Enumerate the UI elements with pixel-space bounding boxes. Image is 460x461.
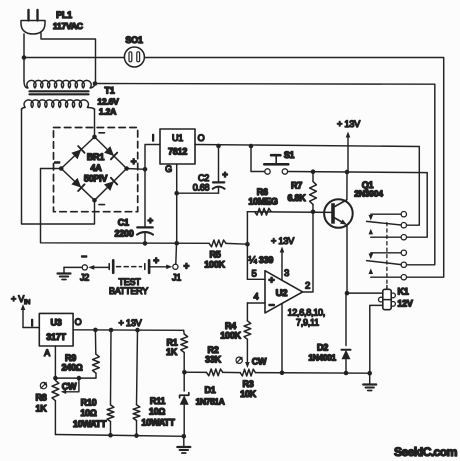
- wire T1 secondary left down and right to bridge bottom vertex: [22, 109, 95, 224]
- label D1 1N751A: [196, 385, 225, 407]
- svg-text:317T: 317T: [46, 332, 66, 342]
- comparator U2 1/4 339 triangle: [265, 271, 303, 313]
- bridge diode bottom-right: [104, 181, 114, 191]
- junction R11 top: [135, 328, 140, 333]
- junction R7 top: [311, 169, 316, 174]
- bridge rectifier BR1 dashed box: [54, 128, 138, 212]
- label D2 1N4001: [308, 343, 336, 363]
- Q1 collector wire: [346, 172, 348, 200]
- ground at J2: [58, 272, 71, 274]
- svg-text:¼ 339: ¼ 339: [249, 254, 274, 266]
- label R7 6.8K: [287, 181, 306, 204]
- svg-text:2: 2: [305, 281, 310, 292]
- svg-text:R3: R3: [242, 379, 253, 389]
- label C1 2200: [114, 218, 133, 239]
- wire +12V line down to S1: [251, 146, 265, 172]
- bridge vertex junctions: [92, 135, 97, 140]
- svg-text:117VAC: 117VAC: [53, 21, 83, 31]
- svg-text:O: O: [75, 317, 82, 327]
- AC line 2 wire from T1 primary to right edge down to relay contact: [95, 84, 435, 265]
- label J1 and plus: [172, 262, 190, 283]
- wire R2 to R3: [223, 371, 240, 373]
- base line to Q1: [247, 211, 331, 214]
- U3 adjust lead: [54, 346, 56, 378]
- svg-text:R2: R2: [207, 345, 218, 355]
- junction D2 at rail: [344, 371, 349, 376]
- svg-text:–: –: [269, 299, 275, 311]
- resistor R9 240ohm: [93, 330, 100, 373]
- relay K1 coil: [347, 286, 395, 310]
- svg-text:I: I: [152, 133, 154, 143]
- pushbutton S1: [264, 155, 288, 174]
- jack J2 with ground: [64, 267, 82, 273]
- svg-text:+: +: [148, 216, 154, 227]
- svg-text:+ 13V: + 13V: [271, 236, 295, 246]
- svg-text:R9: R9: [65, 353, 76, 363]
- svg-text:R5: R5: [209, 250, 220, 260]
- svg-text:J1: J1: [172, 273, 181, 283]
- label Q1 2N3904: [354, 180, 383, 199]
- wire plug left prong down: [23, 34, 25, 57]
- battery lead to J1 with arrow: [150, 266, 166, 268]
- svg-text:1K: 1K: [35, 404, 47, 414]
- wire adjust node to R9 bottom: [55, 373, 96, 378]
- R8 wiper arm: [66, 378, 79, 392]
- svg-text:D2: D2: [317, 343, 328, 353]
- svg-text:C2: C2: [198, 173, 209, 183]
- svg-text:33K: 33K: [205, 355, 222, 365]
- wire R5 to comparator input node: [226, 242, 247, 245]
- label R6 10MEG: [248, 187, 278, 207]
- +VIN input arrow: [11, 294, 39, 328]
- plug PL1: [21, 10, 45, 34]
- +13V arrow at Q1 collector: [337, 119, 361, 172]
- relay contact set 1 terminals: [401, 212, 406, 240]
- label T1 12.6V 1.2A: [97, 86, 119, 117]
- junction R5 / R6 / pin5 node: [245, 242, 250, 247]
- socket SO1: [124, 35, 144, 67]
- Q1 emitter wire: [346, 225, 348, 293]
- label C2 0.68: [193, 173, 210, 193]
- wire R6 left down to pin5 node: [246, 212, 248, 280]
- wire J1 up to common rail: [175, 243, 178, 264]
- svg-text:K1: K1: [397, 287, 408, 297]
- resistor R11 10ohm 10WATT: [133, 330, 140, 435]
- junction U1 G / C2 return: [174, 191, 179, 196]
- junction R10 bottom: [108, 433, 113, 438]
- svg-text:BATTERY: BATTERY: [109, 286, 148, 296]
- svg-text:1N751A: 1N751A: [196, 397, 225, 407]
- svg-text:1.2A: 1.2A: [99, 107, 116, 117]
- junction R11 bottom: [134, 433, 139, 438]
- svg-text:2200: 2200: [114, 229, 133, 239]
- bridge BR1 diamond: [61, 137, 126, 200]
- U2 pin 5 input wire: [247, 278, 265, 280]
- label R2 33K: [205, 345, 222, 365]
- junction D1 / R2 node: [182, 370, 187, 375]
- resistor R5 100K: [209, 240, 226, 247]
- svg-text:R7: R7: [291, 181, 302, 191]
- svg-text:BR1: BR1: [87, 152, 104, 162]
- label R10 10ohm 10WATT: [73, 398, 107, 430]
- svg-text:4A: 4A: [90, 163, 102, 173]
- wire S1 to R7 / +13V / relay contact: [288, 172, 428, 238]
- wire up to U1 input pin: [145, 145, 160, 170]
- junction C1 at common rail: [143, 241, 148, 246]
- junction R7 bottom / base / U2 output: [311, 210, 316, 215]
- transformer T1 core: [30, 90, 89, 92]
- U2 pin 4 input wire: [247, 302, 265, 304]
- svg-text:1N4001: 1N4001: [308, 353, 336, 363]
- resistor R7 6.8K: [310, 172, 317, 212]
- svg-text:O: O: [198, 133, 205, 143]
- AC line 1 wire to SO1: [24, 57, 125, 59]
- svg-text:–: –: [54, 157, 60, 168]
- svg-text:12V: 12V: [397, 299, 413, 309]
- svg-text:50PIV: 50PIV: [84, 174, 108, 184]
- svg-text:–: –: [81, 251, 87, 262]
- bridge diode bottom-left: [71, 178, 81, 188]
- svg-text:12,6,8,10,: 12,6,8,10,: [288, 308, 326, 318]
- potentiometer R8 1K: [52, 378, 79, 434]
- U2 pin 3 +13V arrow: [271, 236, 295, 280]
- junction bridge + node: [143, 167, 148, 172]
- svg-text:R6: R6: [257, 187, 268, 197]
- regulator U3 317T: [39, 313, 73, 346]
- junction AC line 1: [22, 55, 27, 60]
- svg-text:+: +: [269, 275, 275, 287]
- relay actuation dashed link: [386, 223, 388, 286]
- junction Q1 collector / +13V arrow: [345, 170, 350, 175]
- svg-text:7,9,11: 7,9,11: [296, 318, 319, 328]
- svg-text:SO1: SO1: [125, 35, 143, 45]
- svg-text:CW: CW: [252, 357, 267, 367]
- svg-text:4: 4: [253, 292, 258, 303]
- svg-text:2N3904: 2N3904: [354, 189, 383, 199]
- svg-text:7812: 7812: [168, 147, 187, 157]
- svg-text:10WATT: 10WATT: [73, 419, 107, 429]
- junction R8 wiper tap: [77, 376, 82, 381]
- label R1 1K: [166, 338, 178, 358]
- svg-text:+ 13V: + 13V: [337, 119, 361, 129]
- wire plug right prong to T1 primary right: [41, 33, 96, 84]
- label BR1 4A 50PIV: [84, 152, 108, 184]
- battery lead to J2 with arrow: [94, 266, 108, 268]
- svg-text:R8: R8: [35, 393, 46, 403]
- label R4 100K: [220, 321, 241, 341]
- junction R10 top: [109, 328, 114, 333]
- test battery symbol: [88, 256, 172, 273]
- relay contact set 2 terminals: [401, 250, 406, 280]
- svg-text:0.68: 0.68: [193, 183, 210, 193]
- bridge diode top-right: [104, 146, 114, 156]
- bridge diode top-left: [71, 149, 81, 159]
- svg-text:D1: D1: [204, 385, 215, 395]
- svg-text:+: +: [153, 256, 159, 267]
- resistor R10 10ohm 10WATT: [107, 330, 114, 435]
- capacitor C2: [177, 146, 229, 193]
- U1 pin labels I O G: [152, 133, 205, 174]
- bottom rail D1 to ground: [184, 371, 206, 373]
- wire bridge + output to U1 input: [127, 168, 145, 171]
- svg-text:R11: R11: [150, 396, 166, 406]
- svg-text:6.8K: 6.8K: [287, 193, 306, 203]
- U2 ground pin wire: [281, 304, 283, 373]
- transistor Q1 2N3904: [324, 172, 353, 293]
- relay contact set 1 arm and arrows: [367, 214, 402, 237]
- bridge polarity marks: [54, 133, 136, 205]
- svg-text:R10: R10: [81, 398, 97, 408]
- svg-text:+: +: [222, 170, 228, 181]
- svg-text:+: +: [131, 157, 137, 168]
- resistor R6 10MEG: [255, 208, 272, 215]
- svg-text:A: A: [44, 348, 50, 358]
- U3 pin labels O A: [44, 317, 82, 358]
- junction T1 primary right / AC line 2: [93, 81, 98, 86]
- label K1 12V: [397, 287, 413, 309]
- common rail from bridge negative: [41, 169, 210, 244]
- capacitor C1 electrolytic: [137, 169, 154, 243]
- R8 CW mark and adjust symbol: [40, 382, 77, 392]
- resistor R2 33K: [207, 369, 223, 376]
- junction C2 at +12V line: [216, 144, 221, 149]
- svg-text:PL1: PL1: [56, 10, 72, 20]
- zener diode D1 1N751A: [180, 372, 189, 436]
- junction D1 at bottom rail: [182, 434, 187, 439]
- junction Q1 emitter / K1 / D2: [345, 291, 350, 296]
- svg-text:5: 5: [251, 269, 256, 280]
- svg-text:S1: S1: [284, 150, 295, 160]
- regulator U1 7812 box: [160, 129, 195, 164]
- junction R9 top: [93, 328, 98, 333]
- svg-text:U3: U3: [50, 318, 61, 328]
- +13V output line of U3: [73, 329, 184, 332]
- svg-text:J2: J2: [80, 273, 89, 283]
- label R3 10K: [240, 379, 257, 399]
- U1 ground lead: [176, 164, 178, 243]
- svg-text:3: 3: [284, 268, 289, 279]
- junction U1 G at common rail: [174, 241, 179, 246]
- svg-text:CW: CW: [62, 382, 77, 392]
- potentiometer R3 10K: [240, 369, 255, 376]
- svg-text:+ 13V: + 13V: [118, 318, 142, 328]
- svg-text:10WATT: 10WATT: [141, 418, 175, 428]
- K1 return wire to ground: [370, 305, 383, 373]
- svg-text:10Ω: 10Ω: [80, 408, 97, 418]
- svg-text:R1: R1: [166, 338, 177, 348]
- svg-text:240Ω: 240Ω: [62, 363, 83, 373]
- junction adjust node: [53, 376, 58, 381]
- label J2 and minus: [80, 251, 89, 283]
- svg-text:U2: U2: [276, 288, 288, 299]
- svg-text:100K: 100K: [220, 331, 241, 341]
- svg-text:10Ω: 10Ω: [149, 407, 166, 417]
- R3 CW mark and adjust symbol: [236, 357, 267, 367]
- AC line 1 wire from SO1 to right edge then down to relay contact: [144, 58, 443, 278]
- +12V output line from U1 to relay contact: [195, 145, 419, 226]
- svg-text:1K: 1K: [166, 347, 178, 357]
- diode D2 1N4001: [341, 293, 350, 373]
- svg-text:I: I: [31, 318, 33, 328]
- svg-text:+: +: [184, 262, 190, 273]
- svg-text:C1: C1: [118, 218, 129, 228]
- wire T1 secondary right down to bridge top vertex: [94, 109, 96, 137]
- label R5 100K: [204, 250, 225, 270]
- svg-text:G: G: [165, 164, 172, 174]
- svg-text:10K: 10K: [240, 389, 257, 399]
- ground at D1: [177, 436, 190, 453]
- svg-text:R4: R4: [225, 321, 236, 331]
- ground at K1: [363, 373, 376, 390]
- label R9 240ohm: [62, 353, 83, 373]
- junction K1 ground: [367, 371, 372, 376]
- resistor R4 100K: [244, 303, 251, 368]
- transformer T1 primary winding: [24, 80, 95, 88]
- label TEST BATTERY: [109, 277, 148, 296]
- U2 output pin 2 wire up to base node: [303, 212, 313, 292]
- label R11 10ohm 10WATT: [141, 396, 175, 428]
- transformer T1 secondary winding: [22, 100, 95, 110]
- svg-text:12.6V: 12.6V: [97, 97, 119, 107]
- label PL1 117VAC: [53, 10, 83, 31]
- U2 power pins label 12,6,8,10, 7,9,11: [288, 308, 326, 328]
- resistor R1 1K: [181, 330, 188, 372]
- relay contact set 2 arm and arrows: [367, 253, 402, 277]
- label R8 1K: [35, 393, 47, 414]
- bottom rail: [55, 435, 183, 437]
- svg-text:10MEG: 10MEG: [248, 197, 278, 207]
- svg-text:U1: U1: [172, 133, 183, 143]
- svg-text:100K: 100K: [204, 260, 225, 270]
- svg-text:T1: T1: [104, 86, 114, 96]
- junction S1 riser at +12V line: [249, 144, 254, 149]
- J1 terminal: [173, 264, 178, 269]
- wire R3 to D2 ground rail: [255, 372, 369, 375]
- wire plug left down to T1 primary: [23, 57, 25, 81]
- J2 terminal: [82, 265, 87, 270]
- svg-text:SeekIC.com: SeekIC.com: [394, 445, 457, 459]
- junction U2 ground pin at rail: [280, 371, 285, 376]
